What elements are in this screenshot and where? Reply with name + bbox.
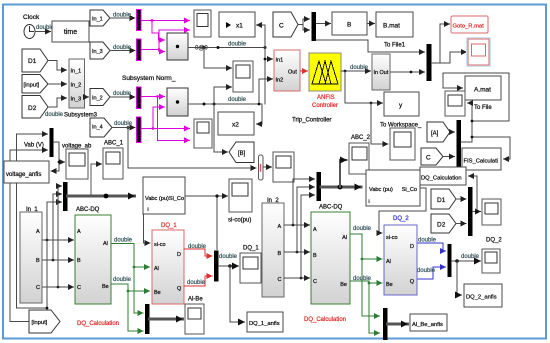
blue wire D to bar (417, 243, 446, 251)
wire net In_4 to rate block (128, 128, 255, 169)
arrowhead into goto input (53, 319, 59, 325)
mux bar magenta 4 (137, 117, 142, 143)
svg-text:B: B (347, 22, 351, 29)
svg-text:⇓: ⇓ (146, 207, 150, 213)
svg-text:Be: Be (386, 282, 393, 288)
svg-text:Q: Q (177, 286, 182, 292)
svg-text:Out: Out (380, 70, 389, 76)
wire InOut to right bar (390, 71, 425, 73)
From tag D2 right (431, 214, 456, 233)
svg-text:[B]: [B] (238, 151, 246, 157)
svg-text:Al: Al (386, 259, 391, 265)
svg-text:B: B (313, 253, 317, 259)
block Vabc (pu)Si_Co 1 (143, 177, 185, 214)
svg-text:double: double (113, 277, 132, 283)
wire Vabc2 to DQ_2 sico (379, 188, 426, 233)
svg-text:Al: Al (103, 241, 108, 247)
green wire Be 2 (350, 281, 382, 283)
wire B to B.mat (367, 23, 375, 25)
svg-text:Q: Q (410, 279, 415, 285)
wire bar out (461, 141, 472, 143)
svg-text:D2: D2 (28, 105, 37, 112)
left margin vertical wire 2 (10, 150, 47, 322)
wire branch to y (345, 71, 383, 103)
svg-text:In_2: In_2 (71, 83, 82, 89)
mux bar magenta 3 (137, 87, 142, 109)
svg-text:double: double (219, 254, 238, 260)
magenta wire bar4 to scope2 in1 (141, 128, 190, 130)
left margin vertical wire 1 (17, 134, 48, 308)
svg-text:DQ_2_anfis: DQ_2_anfis (466, 295, 497, 301)
junction on In_4 wire (127, 126, 130, 129)
block ANFIS Controller (yellow) (309, 53, 341, 91)
wire bar to DQ_2 scope (452, 260, 481, 262)
thick wire mux2 to Vabc2 (321, 186, 361, 189)
block x2 (218, 112, 254, 135)
wire A to ABC-DQ 2 (284, 224, 310, 226)
scope center (233, 61, 253, 92)
subsystem Subsystem3 (69, 59, 85, 108)
block y (384, 92, 419, 116)
svg-text:double: double (353, 226, 372, 232)
wire down to [input] (47, 240, 53, 322)
wire C to mux split (298, 19, 310, 25)
svg-text:Be: Be (154, 290, 161, 296)
svg-text:A.mat: A.mat (474, 87, 491, 94)
svg-text:si-co(pu): si-co(pu) (228, 218, 251, 224)
tap B up to mux2 (297, 187, 315, 252)
block Goto_R.mat (red) (451, 16, 488, 33)
subsystem Trip (red) (274, 50, 300, 91)
svg-text:DQ_1: DQ_1 (243, 246, 259, 252)
svg-text:A: A (36, 229, 40, 235)
scope mid (273, 152, 294, 182)
wire to red scope (440, 52, 467, 63)
scope block top (194, 10, 211, 37)
blue wire Q to bar (414, 267, 446, 279)
wire Vabc1 bottom to DQ_1 sico (144, 214, 151, 243)
scope DQ_2 (482, 249, 500, 273)
svg-text:In: In (374, 70, 379, 76)
svg-text:C: C (36, 285, 40, 291)
wire into Trip In2 (259, 79, 273, 104)
scope ABC_2 (349, 143, 369, 174)
svg-text:[A]: [A] (431, 131, 439, 137)
From tag D1 (22, 49, 48, 72)
svg-text:double: double (461, 254, 480, 260)
svg-text:Out: Out (288, 70, 297, 76)
wire rate to scope (264, 166, 272, 168)
mux bar ABC 2 (317, 172, 322, 201)
wire branch up to x1 (257, 25, 266, 48)
svg-text:C: C (77, 285, 81, 291)
wire [input] to Subsystem3 (48, 83, 67, 85)
wire A.mat loop (443, 73, 509, 121)
From tag C top (273, 12, 298, 37)
wire into DQ_Calculation (469, 176, 478, 212)
svg-text:D1: D1 (437, 197, 446, 204)
svg-text:double: double (350, 65, 369, 71)
svg-text:0@0: 0@0 (195, 46, 208, 52)
block x1 (219, 12, 255, 37)
green wire Be (111, 284, 150, 291)
svg-text:time: time (64, 29, 77, 36)
block B (332, 12, 367, 35)
mux bar magenta 2 (137, 39, 142, 61)
svg-text:Al: Al (342, 235, 347, 241)
svg-text:A: A (313, 227, 317, 233)
magenta wire branch to product in2 (159, 50, 165, 52)
mux bar right lower (468, 187, 473, 236)
svg-text:double: double (113, 13, 132, 19)
svg-text:x1: x1 (236, 23, 243, 30)
From tag C right (421, 148, 443, 165)
subsystem DQ_2 (blue) (384, 225, 417, 295)
svg-text:ABC_2: ABC_2 (351, 135, 371, 141)
svg-text:DQ_Calculation: DQ_Calculation (77, 321, 119, 327)
magenta wire bar1 to scope (141, 20, 190, 22)
svg-text:Vab (V): Vab (V) (24, 143, 44, 149)
wire Clock to time (35, 31, 51, 33)
wire branch to goto B (214, 104, 228, 152)
svg-text:In1: In1 (276, 58, 284, 64)
wire branch to voltage_anfis (51, 162, 59, 171)
scope right (482, 199, 501, 225)
svg-text:To File1: To File1 (384, 43, 406, 49)
junctions (203, 103, 206, 106)
svg-text:double: double (45, 112, 64, 118)
subsystem ABC-DQ 2 (green) (311, 212, 350, 304)
thick wire mux to Vabc1 (68, 195, 135, 198)
svg-text:Clock: Clock (23, 14, 40, 21)
svg-text:double: double (418, 238, 437, 244)
green wire Al (111, 244, 150, 268)
svg-text:si-co: si-co (386, 235, 398, 241)
scope si-co(pu) (229, 179, 252, 212)
wire ANFIS to InOut (341, 70, 371, 72)
wire into voltage mux in1 (17, 133, 48, 135)
From tag [input] (22, 75, 48, 94)
svg-text:D2: D2 (437, 222, 446, 229)
svg-text:In_2: In_2 (92, 96, 103, 102)
svg-text:D: D (177, 252, 181, 258)
magenta branch to scope2 in2 (158, 97, 190, 141)
svg-text:x2: x2 (232, 122, 239, 129)
wire C to ABC-DQ (43, 286, 74, 288)
svg-text:DQ_1: DQ_1 (161, 223, 177, 229)
rate transition thin block (259, 155, 264, 180)
tap B up to mux (53, 194, 62, 260)
product block 1 (167, 33, 188, 60)
mux bar DQ1 (214, 251, 219, 282)
green wire Al 2 (350, 234, 382, 259)
scope Al-Be (185, 304, 204, 334)
block FIS_Calculati (462, 148, 501, 170)
wire Subsystem3 output stub (85, 96, 89, 98)
wire into voltage mux in2 (10, 149, 48, 151)
svg-text:B: B (36, 258, 40, 264)
junction (151, 19, 154, 22)
scope under A.mat (445, 91, 465, 116)
svg-text:To File: To File (474, 105, 492, 111)
svg-text:Al_Be_anfis: Al_Be_anfis (412, 322, 443, 328)
wire scope feedback vertical (468, 103, 473, 142)
mux bar Al-Be (145, 304, 150, 334)
wire product2 net (188, 103, 262, 105)
wire branch to workspace scope (371, 103, 388, 144)
svg-text:double: double (114, 238, 133, 244)
red wire D to mux (184, 249, 212, 256)
green wire Al down to mux3 (362, 259, 380, 316)
mux bar right top (427, 44, 432, 81)
mux bar DQ2 (448, 244, 452, 277)
wire [A] to bar (450, 131, 455, 133)
svg-text:double: double (228, 42, 247, 48)
svg-text:double: double (113, 91, 132, 97)
svg-text:DQ_2: DQ_2 (393, 216, 409, 222)
wire D2 to Subsystem3 (48, 98, 67, 107)
svg-text:DQ_2: DQ_2 (486, 238, 502, 244)
svg-text:B: B (77, 258, 81, 264)
green wire Be down to mux (128, 291, 143, 331)
svg-text:D: D (410, 244, 414, 250)
block voltage_anfis (4, 161, 49, 183)
wire branch to scope center in2 (214, 87, 232, 104)
wire A to ABC-DQ (43, 239, 74, 241)
wire D1 to Subsystem3 (48, 61, 67, 71)
svg-text:DQ_Calculation: DQ_Calculation (421, 176, 462, 182)
mux bar right mid (457, 120, 462, 167)
wire In_4 to bar (112, 127, 135, 129)
svg-text:In_4: In_4 (92, 125, 103, 131)
magenta wire branch to product in1 (152, 21, 165, 41)
tap C up to mux (58, 186, 62, 287)
svg-text:D1: D1 (28, 58, 37, 65)
wire D1 to bar (456, 198, 466, 200)
inport In_3 (90, 42, 110, 59)
wire loop to right bar top (316, 40, 425, 52)
block DQ_1_anfis (247, 312, 283, 332)
svg-text:double: double (113, 45, 132, 51)
svg-text:B.mat: B.mat (383, 23, 400, 30)
svg-text:Be: Be (340, 282, 347, 288)
block A.mat (465, 76, 501, 100)
scope ABC_1 (103, 148, 123, 179)
product block 2 (167, 88, 188, 116)
mux bar ABC left (63, 182, 68, 211)
junction (158, 48, 161, 51)
svg-text:C: C (313, 279, 317, 285)
wire bar to scope (473, 211, 481, 213)
wire product1 long net (188, 47, 265, 49)
inport In_4 (90, 118, 112, 137)
svg-text:In_3: In_3 (92, 49, 103, 55)
wire C to bar (443, 156, 455, 158)
mux bar voltage (50, 128, 54, 157)
svg-text:ABC-DQ: ABC-DQ (76, 207, 100, 213)
wire mux to B (316, 23, 331, 25)
wire to FIS block (472, 137, 510, 159)
svg-text:double: double (187, 280, 206, 286)
subsystem In_1 tall (20, 212, 42, 303)
mux bar magenta 1 (137, 10, 142, 31)
Clock block (24, 25, 35, 39)
wire across to loop (472, 120, 509, 122)
svg-text:double: double (417, 268, 436, 274)
svg-text:Vabc (pu)Si_Co: Vabc (pu)Si_Co (145, 196, 184, 202)
red wire Q to mux (184, 276, 212, 286)
wire B to ABC-DQ (43, 259, 74, 261)
svg-text:Al: Al (154, 266, 159, 272)
wire Trip Out to ANFIS (red) (300, 70, 308, 72)
svg-text:C: C (279, 23, 284, 30)
scope voltage_ab (66, 149, 88, 179)
wire Vabc1 out to net (185, 196, 217, 250)
magenta branch to product2 in2 (153, 107, 165, 129)
goto tag [B] (229, 142, 254, 163)
svg-text:In_3: In_3 (71, 97, 82, 103)
block Al_Be_anfis (410, 314, 447, 331)
subsystem In_2 tall (262, 203, 284, 297)
thick wire to Al_Be_anfis (388, 323, 408, 326)
wire branch to scope center in1 (204, 48, 232, 69)
svg-text:FIS_Calculati: FIS_Calculati (464, 159, 498, 165)
wire vertical to lower net (264, 48, 266, 105)
svg-text:Be: Be (102, 284, 109, 290)
goto tag [input] bottom (29, 310, 60, 333)
svg-text:[input]: [input] (32, 320, 48, 326)
svg-text:Trip_Controller: Trip_Controller (292, 118, 331, 124)
svg-text:double: double (188, 244, 207, 250)
wire branch to ABC_1 scope (91, 164, 102, 196)
svg-text:[input]: [input] (24, 83, 40, 89)
wire In_1 to bar (110, 17, 135, 19)
wire bar out split (432, 24, 450, 63)
wire In_3 to bar (110, 50, 135, 52)
svg-text:double: double (228, 97, 247, 103)
svg-text:double: double (114, 121, 133, 127)
wire In_2 to bar (110, 96, 135, 98)
mux bar Al_Be anfis (383, 308, 388, 340)
junction (156, 95, 159, 98)
svg-text:ABC_1: ABC_1 (104, 141, 124, 147)
svg-text:Controller: Controller (312, 103, 338, 109)
inport In_2 (90, 89, 110, 106)
tap A up to mux2 (293, 179, 315, 225)
svg-text:Si_Co: Si_Co (402, 187, 417, 193)
svg-text:Goto_R.mat: Goto_R.mat (453, 24, 485, 30)
svg-text:In_1: In_1 (92, 17, 103, 23)
wire D2 to bar (456, 223, 466, 225)
thick wire to Al-Be scope (150, 318, 183, 321)
svg-text:A: A (77, 229, 81, 235)
magenta wire bar3 to product2 in1 (141, 96, 165, 98)
green wire Be down to mux3 (369, 283, 380, 333)
block Vabc (pu) Si_Co 2 (366, 170, 420, 206)
svg-text:DQ_Calculation: DQ_Calculation (304, 317, 346, 323)
block DQ_Calculation tag (420, 167, 466, 185)
tap C up to mux2 (301, 195, 315, 278)
svg-text:B: B (278, 251, 282, 257)
svg-text:voltage_anfis: voltage_anfis (6, 172, 41, 178)
From tag [A] (427, 122, 450, 142)
svg-text:Subsystem Norm_: Subsystem Norm_ (122, 75, 176, 82)
svg-text:In2: In2 (276, 78, 284, 84)
svg-text:si-co: si-co (154, 242, 166, 248)
From tag D1 right (431, 189, 456, 209)
svg-text:ABC-DQ: ABC-DQ (319, 205, 343, 211)
wire branch to DQ_1_anfis (230, 266, 245, 322)
wire branch to si-co scope (217, 195, 228, 197)
From tag D2 (22, 96, 48, 119)
svg-text:⇓: ⇓ (367, 199, 371, 205)
svg-text:In_1: In_1 (71, 69, 82, 75)
svg-text:A: A (278, 224, 282, 230)
mux bar top center (312, 12, 317, 41)
svg-text:C: C (426, 155, 431, 162)
wire mux to voltage_ab scope (54, 142, 65, 162)
block B.mat (376, 12, 413, 37)
block InOut (372, 54, 390, 90)
scope block 2 (194, 119, 212, 148)
arrow into rate block (248, 167, 256, 169)
scope To Workspace (390, 128, 415, 160)
svg-text:Al-Be: Al-Be (188, 297, 203, 303)
svg-text:Vabc (pu): Vabc (pu) (369, 187, 393, 193)
inport In_1 (90, 10, 110, 26)
svg-text:DQ_1_anfis: DQ_1_anfis (249, 321, 280, 327)
svg-text:double: double (353, 276, 372, 282)
wire B to ABC-DQ 2 (284, 251, 310, 253)
svg-text:ANFIS: ANFIS (317, 95, 335, 101)
scope red (selected) (466, 37, 491, 67)
subsystem ABC-DQ 1 (green) (75, 215, 111, 304)
green wire Al down to mux (134, 267, 143, 313)
junction (152, 127, 155, 130)
magenta wire bar2 to scope in2 (141, 30, 190, 50)
wire branch to DQ_2_anfis (457, 261, 462, 295)
block DQ_2_anfis (464, 284, 502, 307)
scope DQ_1 (240, 253, 261, 283)
wire C split lower (303, 25, 310, 31)
wire branch to Trip In1 (265, 58, 273, 60)
svg-text:C: C (278, 277, 282, 283)
block time (52, 21, 89, 42)
wire C to ABC-DQ 2 (284, 277, 310, 279)
wire corner into x2 (257, 104, 263, 124)
wire mux to DQ_1 scope (219, 265, 239, 267)
subsystem DQ_1 (red) (152, 230, 184, 304)
tap A up to mux (47, 202, 62, 240)
junction dots (203, 46, 206, 49)
thick branch to ABC_2 scope (340, 160, 347, 187)
